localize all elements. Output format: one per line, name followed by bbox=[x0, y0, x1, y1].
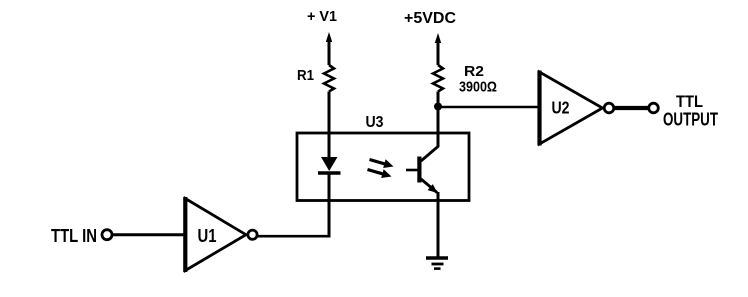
svg-text:TTL: TTL bbox=[676, 92, 703, 111]
svg-text:3900Ω: 3900Ω bbox=[459, 79, 497, 96]
phototransistor inside U3 bbox=[406, 146, 439, 193]
power arrow +V1 bbox=[326, 32, 332, 65]
output terminal bbox=[649, 103, 659, 113]
U1 output bubble bbox=[248, 230, 257, 239]
inverter U1 bbox=[185, 197, 246, 272]
wire R2 to node bbox=[437, 92, 440, 108]
wire node to U2 input bbox=[438, 106, 540, 109]
svg-text:OUTPUT: OUTPUT bbox=[663, 110, 718, 130]
svg-text:U3: U3 bbox=[366, 114, 384, 131]
node junction dot bbox=[434, 103, 442, 111]
resistor R2 bbox=[433, 65, 443, 92]
svg-text:U2: U2 bbox=[552, 98, 570, 118]
ground bbox=[426, 258, 448, 269]
inverter U2 bbox=[540, 71, 603, 146]
input terminal bbox=[102, 230, 112, 240]
power arrow +5VDC bbox=[435, 33, 441, 65]
light arrow 1 bbox=[370, 159, 394, 168]
svg-text:+5VDC: +5VDC bbox=[404, 10, 456, 27]
wire node to collector bbox=[437, 107, 440, 147]
optocoupler U3 box bbox=[297, 133, 469, 201]
svg-text:+ V1: + V1 bbox=[307, 8, 337, 25]
wire input terminal to U1 bbox=[113, 233, 185, 236]
resistor R1 bbox=[324, 65, 334, 92]
label TTL OUTPUT bbox=[663, 92, 718, 130]
light arrow 2 bbox=[368, 169, 392, 178]
svg-text:TTL IN: TTL IN bbox=[51, 225, 97, 246]
wire U1 output to junction bbox=[258, 235, 331, 238]
wire emitter to ground bbox=[437, 192, 440, 258]
wire LED cathode to U1 output corner bbox=[328, 173, 331, 238]
wire U2 bubble to output terminal bbox=[614, 106, 648, 110]
U2 output bubble bbox=[604, 103, 614, 113]
wire R1 to LED anode bbox=[328, 92, 331, 159]
svg-text:R1: R1 bbox=[297, 67, 314, 84]
svg-text:R2: R2 bbox=[464, 63, 484, 80]
LED inside U3 bbox=[318, 157, 341, 173]
svg-text:U1: U1 bbox=[198, 226, 217, 246]
